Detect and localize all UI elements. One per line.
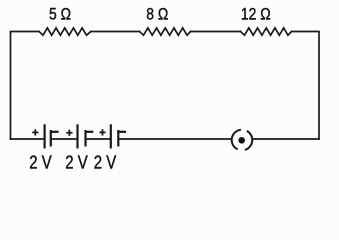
battery cell 1 long plate	[43, 124, 45, 148]
resistor R2 8 ohm	[140, 28, 191, 35]
battery cell 2 long plate	[76, 124, 78, 148]
svg-text:2 V: 2 V	[94, 152, 116, 173]
plus sign cell 1	[32, 131, 38, 133]
battery cell 1 short-plate top bar	[50, 131, 59, 133]
svg-text:2 V: 2 V	[65, 152, 87, 173]
wire bottom-left to cell 1	[11, 138, 44, 140]
wire cell2 to cell3	[86, 138, 110, 140]
resistor R1 5 ohm	[39, 28, 91, 35]
battery cell 2 short plate	[84, 130, 86, 147]
battery cell 3 long plate	[110, 124, 112, 148]
svg-text:2 V: 2 V	[29, 152, 51, 173]
wire cell3 to key	[118, 138, 231, 140]
wire between R1 and R2	[91, 31, 140, 33]
resistor R3 12 ohm	[241, 28, 292, 35]
svg-text:12 Ω: 12 Ω	[241, 5, 271, 24]
svg-text:8 Ω: 8 Ω	[146, 5, 168, 24]
battery cell 3 short plate	[117, 130, 119, 147]
wire key to right corner	[253, 138, 319, 140]
plus sign cell 2	[66, 132, 72, 134]
wire top-right and right side	[292, 32, 320, 140]
wire cell1 to cell2	[51, 138, 77, 140]
wire top-left segment	[11, 32, 40, 140]
battery cell 1 short plate	[50, 130, 52, 147]
battery cell 2 short-plate top bar	[85, 131, 94, 133]
wire between R2 and R3	[191, 31, 241, 33]
battery cell 3 short-plate top bar	[117, 131, 126, 133]
svg-text:5 Ω: 5 Ω	[49, 5, 71, 24]
plus sign cell 3	[99, 131, 105, 133]
plug key / indicator: broken circle with dot	[232, 130, 253, 150]
key centre dot	[238, 137, 245, 144]
